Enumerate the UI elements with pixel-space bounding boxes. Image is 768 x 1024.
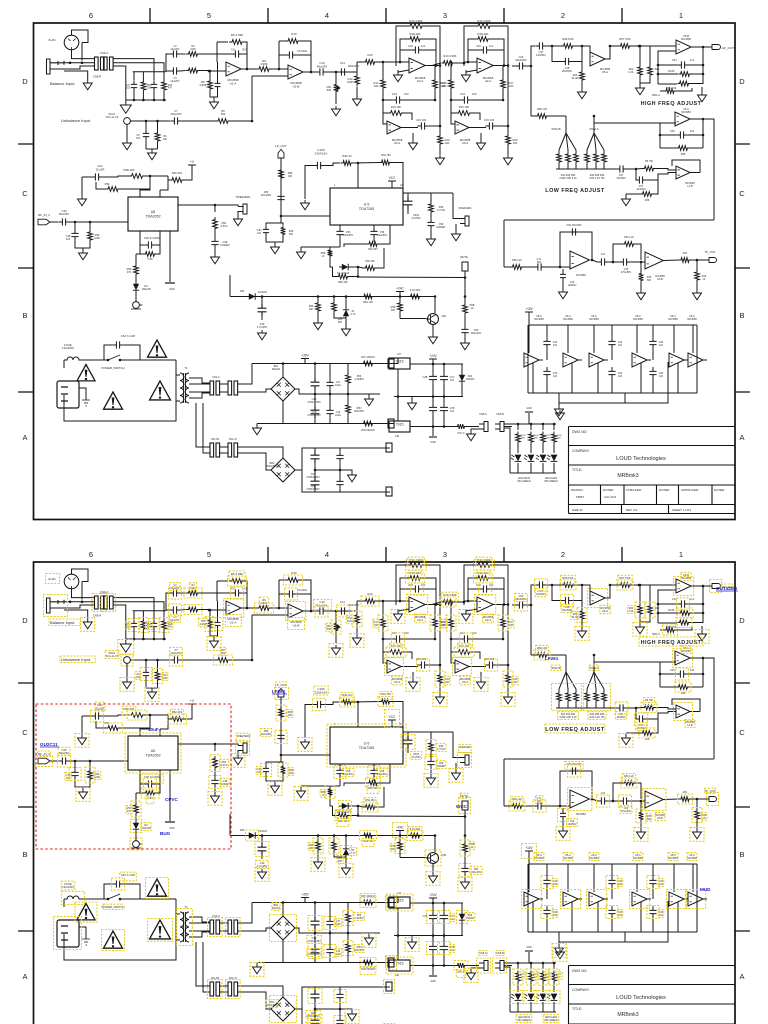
svg-text:MUD: MUD — [700, 887, 711, 892]
svg-text:WCC: WCC — [456, 804, 468, 809]
page 2 schematic — [18, 547, 750, 1024]
svg-text:OUT/GND: OUT/GND — [716, 586, 738, 591]
svg-text:CPVC: CPVC — [165, 797, 178, 802]
svg-text:LF261: LF261 — [545, 656, 559, 661]
svg-text:GU2C11: GU2C11 — [40, 742, 58, 747]
svg-text:LF261: LF261 — [272, 689, 286, 694]
red review box — [36, 704, 231, 849]
page 1 schematic — [18, 8, 750, 520]
page 2 highlight overlay — [36, 557, 733, 1024]
svg-text:BUG: BUG — [160, 831, 171, 836]
svg-text:10uF: 10uF — [148, 727, 159, 732]
